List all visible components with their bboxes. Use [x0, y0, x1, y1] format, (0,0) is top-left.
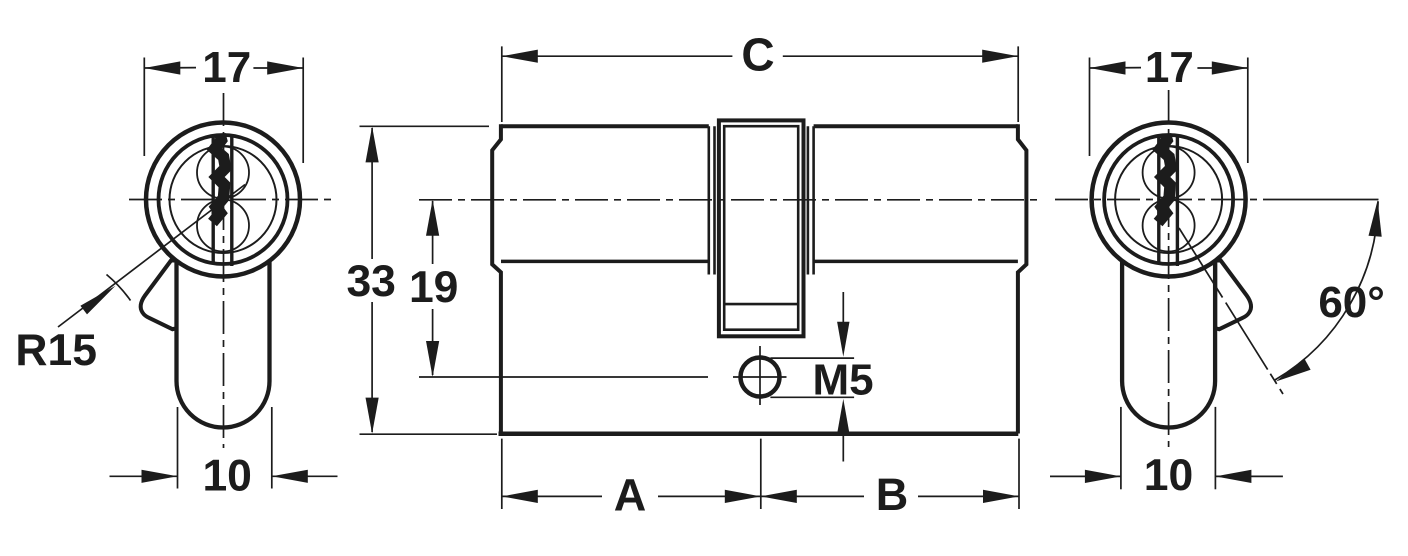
- middle horizontal centerline: [419, 199, 1038, 201]
- right view keyway right line: [1176, 135, 1179, 267]
- svg-text:17: 17: [1145, 43, 1194, 92]
- svg-text:B: B: [876, 469, 909, 520]
- M5 screw hole circle: [741, 358, 780, 397]
- left view vertical centerline: [223, 93, 225, 448]
- right 10 dimension arrows: [1050, 475, 1121, 477]
- 19 bottom extension line to M5 hole: [419, 376, 708, 378]
- svg-text:10: 10: [1144, 451, 1194, 500]
- right view keyway left line: [1157, 135, 1160, 264]
- right view 60-degree dash-dot line: [1179, 228, 1283, 394]
- svg-text:60°: 60°: [1318, 278, 1385, 327]
- right view outer circle: [1092, 123, 1246, 277]
- cam outer rectangle: [719, 120, 804, 336]
- C dimension line + arrows: [502, 55, 733, 57]
- left 17 dimension line + arrows: [144, 67, 196, 69]
- svg-text:19: 19: [409, 263, 459, 312]
- right 17 dimension extension lines: [1089, 58, 1091, 157]
- right 17 dimension line + arrows: [1090, 67, 1142, 69]
- left view R15 arc: [107, 275, 131, 301]
- body right silhouette: [1018, 124, 1027, 433]
- 60-degree arc top arrowhead: [1369, 200, 1382, 236]
- right view 60-degree reference line solid end: [1285, 199, 1379, 201]
- svg-text:C: C: [741, 29, 774, 81]
- left view outer circle: [146, 123, 300, 277]
- left view small bottom circle: [197, 200, 249, 252]
- right view small top circle: [1143, 147, 1195, 199]
- barrel top edge: [501, 124, 709, 128]
- B dimension line + arrows: [761, 495, 864, 497]
- 19 dimension line + arrows: [432, 201, 434, 264]
- M5 hole crosshair horizontal: [733, 376, 787, 378]
- right view body profile: [1122, 258, 1215, 428]
- right 10 dimension extension lines: [1120, 407, 1122, 489]
- right view cam lug: [1215, 261, 1251, 330]
- right view horizontal centerline: [1055, 199, 1285, 201]
- M5 hole crosshair vertical: [759, 346, 761, 405]
- A/B dimension extension lines: [501, 439, 503, 509]
- body bottom edge: [499, 432, 1019, 437]
- cam slot left wall lines: [707, 126, 710, 274]
- svg-text:R15: R15: [15, 326, 97, 375]
- left view small top circle: [197, 147, 249, 199]
- svg-text:A: A: [614, 470, 647, 521]
- svg-text:10: 10: [202, 452, 252, 501]
- cam slot right wall lines: [807, 126, 810, 274]
- A dimension line + arrows: [502, 495, 602, 497]
- cam inner horizontal line: [724, 303, 798, 306]
- right view key profile: [1158, 135, 1171, 223]
- left view body profile: [177, 258, 270, 428]
- left 10 dimension arrows: [110, 475, 178, 477]
- left view keyway right line: [230, 135, 233, 267]
- left 17 dimension extension lines: [143, 58, 145, 157]
- svg-text:17: 17: [202, 43, 251, 92]
- left view middle ring: [159, 135, 288, 264]
- left view key profile: [213, 135, 226, 223]
- C dimension extension lines: [501, 46, 503, 122]
- M5 bottom arrow: [837, 399, 849, 434]
- left view keyway left line: [211, 135, 214, 264]
- 33 dimension line + arrows: [371, 128, 373, 259]
- M5 dimension lines: [770, 357, 854, 359]
- right view small bottom circle: [1143, 200, 1195, 252]
- 60-degree arc bottom arrowhead: [1276, 358, 1311, 381]
- M5 top arrow: [842, 292, 844, 330]
- right view plug circle: [1115, 146, 1222, 253]
- body left silhouette: [492, 124, 501, 433]
- right view vertical centerline: [1168, 90, 1170, 447]
- left view plug circle: [170, 146, 277, 253]
- left view horizontal centerline: [129, 199, 336, 201]
- left view R15 leader arrowhead: [80, 286, 115, 315]
- barrel bottom edge: [501, 260, 709, 264]
- left view cam lug: [141, 261, 177, 330]
- svg-text:M5: M5: [813, 356, 874, 405]
- svg-text:33: 33: [346, 257, 396, 306]
- cam inner rectangle: [724, 126, 798, 330]
- 60-degree dimension arc: [1275, 201, 1378, 380]
- 33 dimension extension lines: [360, 125, 490, 127]
- left 10 dimension extension lines: [177, 407, 179, 489]
- right view middle ring: [1104, 135, 1233, 264]
- left view R15 leader line: [58, 185, 245, 328]
